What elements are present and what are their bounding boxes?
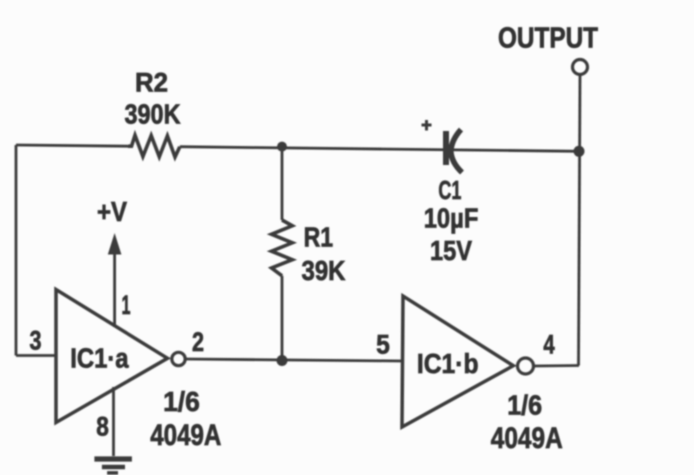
- wire: left vertical: [15, 145, 18, 356]
- svg-text:R2: R2: [135, 68, 168, 98]
- op-amp/inverter IC1-a: [56, 290, 168, 423]
- wire: pin 8 to ground: [112, 387, 115, 456]
- svg-text:5: 5: [376, 329, 390, 359]
- svg-text:+V: +V: [97, 196, 127, 227]
- svg-text:8: 8: [96, 411, 109, 441]
- wire: top wire middle+right segment: [180, 147, 579, 152]
- svg-text:IC1·a: IC1·a: [70, 343, 129, 374]
- svg-text:OUTPUT: OUTPUT: [498, 23, 598, 55]
- svg-text:4049A: 4049A: [150, 419, 221, 452]
- svg-text:3: 3: [30, 325, 42, 355]
- capacitor C1 curved plate: [451, 130, 462, 173]
- svg-text:4: 4: [543, 330, 554, 360]
- ground: [94, 456, 131, 461]
- svg-text:390K: 390K: [125, 98, 181, 129]
- resistor R1: [272, 220, 293, 276]
- svg-text:1/6: 1/6: [507, 390, 542, 421]
- op-amp/inverter IC1-b: [402, 296, 513, 427]
- node: junction top of R1: [277, 142, 287, 152]
- wire: output vertical: [579, 75, 581, 366]
- svg-text:2: 2: [192, 327, 204, 357]
- svg-text:R1: R1: [304, 221, 334, 252]
- wire: R1 lower branch: [281, 276, 284, 361]
- node: junction right: [574, 146, 585, 157]
- resistor R2: [128, 135, 180, 157]
- wire: input to pin 3: [16, 354, 57, 357]
- svg-text:15V: 15V: [430, 235, 472, 266]
- node: IC1-b output bubble: [518, 358, 534, 374]
- svg-text:C1: C1: [438, 175, 461, 205]
- svg-text:39K: 39K: [302, 255, 346, 286]
- svg-text:1/6: 1/6: [163, 386, 200, 417]
- capacitor C1 plus sign: [422, 120, 432, 131]
- node: OUTPUT terminal circle: [573, 60, 588, 75]
- power +V arrow: [113, 252, 116, 327]
- svg-text:IC1·b: IC1·b: [417, 348, 479, 379]
- capacitor C1 straight plate: [443, 131, 449, 165]
- wire: top feedback wire left segment: [16, 145, 128, 146]
- node: IC1-a output bubble: [172, 352, 185, 365]
- node: junction on signal wire: [277, 355, 288, 366]
- wire: R1 upper branch: [281, 147, 284, 220]
- svg-text:1: 1: [122, 290, 131, 320]
- wire: pin 4 output: [534, 364, 579, 367]
- wire: signal pin2 to pin5: [186, 359, 403, 361]
- svg-text:4049A: 4049A: [491, 422, 563, 455]
- svg-text:10µF: 10µF: [424, 203, 479, 234]
